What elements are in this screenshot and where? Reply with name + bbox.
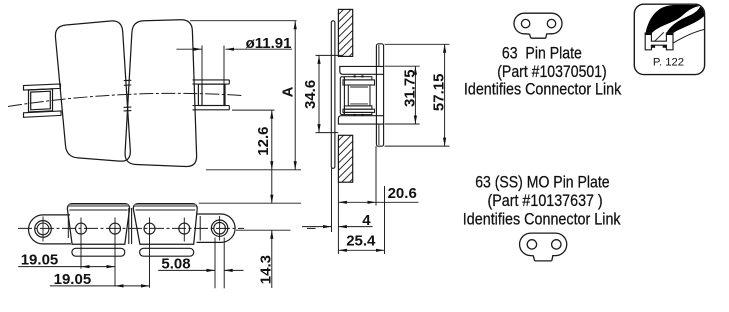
- body1 hole 1 crosshair+ext: [80, 218, 82, 269]
- dimension text 5.08: [161, 256, 190, 273]
- svg-text:Identifies Connector Link: Identifies Connector Link: [463, 211, 621, 229]
- svg-text:19.05: 19.05: [54, 271, 92, 288]
- cross-section top flange: [340, 66, 384, 74]
- body2 hole 4 crosshair: [183, 218, 185, 242]
- left link bushing box outer: [29, 89, 53, 112]
- right end inner circle: [214, 222, 226, 234]
- dimension 19.05b line and text underline: [50, 284, 150, 287]
- cross-section pin center block: [348, 85, 370, 106]
- dimension 14.3 line: [270, 170, 273, 288]
- dimension 34.6 line: [317, 55, 320, 132]
- side view centerline (dash-dot): [8, 93, 242, 106]
- cross-section pin bar top narrow: [344, 77, 372, 80]
- cross-section pin bar bottom narrow: [344, 106, 372, 109]
- left link top bar: [24, 84, 61, 90]
- dimension 20.6 extensions: [338, 146, 376, 205]
- left end crosshair: [42, 216, 44, 241]
- body1 hole 2 crosshair+ext: [114, 218, 116, 287]
- svg-text:Identifies Connector Link: Identifies Connector Link: [464, 81, 622, 99]
- dimension 57.15 line: [443, 44, 446, 146]
- svg-text:63 (SS) MO Pin Plate: 63 (SS) MO Pin Plate: [475, 173, 609, 191]
- bottom view centerline: [18, 227, 316, 229]
- svg-text:ø11.91: ø11.91: [246, 35, 292, 52]
- left plate end cut line: [67, 216, 69, 238]
- dimension dia11.91 extension lines: [202, 46, 224, 85]
- cross-section pin bar bottom wide: [343, 109, 375, 112]
- right link pin box inner: [202, 84, 224, 105]
- text Part 10370501: [497, 63, 607, 81]
- cross-section pin left cap: [340, 77, 344, 115]
- dimension text 20.6: [388, 185, 417, 202]
- dimension 25.4 line: [338, 249, 384, 252]
- dimension text 25.4: [346, 233, 376, 250]
- left end inner circle: [37, 223, 49, 235]
- side view plate 2 (link sideplate): [125, 20, 197, 167]
- svg-text:31.75: 31.75: [402, 69, 419, 107]
- link body 2 outline: [133, 204, 197, 245]
- svg-text:20.6: 20.6: [388, 185, 417, 202]
- top pin plate icon: [514, 13, 562, 38]
- P.122 chain curve graphic: [645, 5, 705, 43]
- body2 hole 3: [144, 223, 155, 234]
- dimension A top extension: [190, 20, 297, 22]
- dimension 31.75 line: [414, 66, 417, 124]
- svg-text:19.05: 19.05: [21, 251, 59, 268]
- dimension 20.6 line: [338, 201, 418, 204]
- text Identifies Connector Link 1: [464, 81, 622, 99]
- link body 1 top inner line: [69, 209, 127, 211]
- body1 hole 2: [110, 223, 121, 234]
- text 63 SS MO Pin Plate: [475, 173, 609, 191]
- svg-text:14.3: 14.3: [258, 255, 275, 284]
- text P. 122: [653, 57, 684, 69]
- cross-section hidden-line dots: [354, 75, 364, 116]
- svg-text:P. 122: P. 122: [653, 57, 684, 69]
- svg-text:(Part #10137637 ): (Part #10137637 ): [488, 192, 603, 210]
- left plate end (stadium): [29, 215, 71, 244]
- link body 2 bottom boat: [140, 248, 194, 256]
- cross-section bottom flange: [338, 116, 383, 124]
- dimension 12.6 line: [270, 110, 273, 170]
- cross-section thin side plate: [331, 21, 335, 169]
- right end crosshair: [219, 216, 221, 241]
- cross-section pin bar top wide: [343, 80, 375, 85]
- dimension 5.08 line: [158, 269, 243, 272]
- dimension 34.6 extensions: [316, 55, 343, 132]
- body2 hole 4: [179, 223, 190, 234]
- bottom pin plate icon: [520, 233, 567, 261]
- dimension 31.75 extensions: [385, 66, 420, 124]
- dimension text 34.6: [302, 80, 319, 109]
- svg-text:A: A: [279, 86, 296, 97]
- right link bottom bar: [193, 106, 230, 110]
- text Identifies Connector Link 2: [463, 211, 621, 229]
- svg-text:25.4: 25.4: [346, 233, 376, 250]
- svg-text:57.15: 57.15: [431, 74, 448, 112]
- link body 2 top shade: [135, 204, 196, 207]
- left link bushing box inner: [31, 91, 51, 110]
- right end outer circle: [211, 220, 227, 236]
- P.122 chain profile H: [645, 33, 673, 50]
- link body 1 top shade: [69, 204, 129, 207]
- dimension dia11.91 leader and arrows: [177, 48, 293, 51]
- svg-text:(Part #10370501): (Part #10370501): [497, 63, 607, 81]
- left end outer circle: [35, 221, 52, 238]
- gap link edges: [129, 208, 132, 244]
- link body 2 top inner line: [136, 209, 196, 211]
- cross-section top hatched block: [338, 9, 352, 56]
- middle link bar fragments: [124, 80, 132, 111]
- dimension text 57.15: [431, 74, 448, 112]
- P.122 catalog box frame: [634, 4, 704, 74]
- svg-text:63 Pin Plate: 63 Pin Plate: [502, 44, 582, 62]
- svg-text:4: 4: [362, 212, 371, 229]
- dimension 19.05a line and text underline: [18, 265, 115, 268]
- dimension 12.6 top extension: [232, 109, 275, 111]
- svg-text:34.6: 34.6: [302, 80, 319, 109]
- dimension 25.4 right extension: [384, 186, 386, 254]
- link body 1 outline: [67, 204, 129, 245]
- dimension text 31.75: [402, 69, 419, 107]
- body2 hole 3 crosshair+ext: [149, 218, 151, 288]
- dimension text 19.05a: [21, 251, 59, 268]
- dimension text 19.05b: [54, 271, 92, 288]
- dimension text 4: [362, 212, 371, 229]
- cross-section pin bar bottom narrow2: [344, 112, 372, 114]
- right plate end (stadium): [197, 214, 236, 242]
- dimension 57.15 extensions: [385, 44, 450, 146]
- dimension 14.3 extensions: [199, 203, 301, 230]
- right link pin box outer: [198, 84, 225, 105]
- link body 1 bottom boat: [72, 248, 125, 256]
- svg-text:12.6: 12.6: [255, 126, 272, 155]
- bottom extension line (plate bottom): [206, 169, 301, 171]
- dimension A line: [294, 21, 297, 170]
- dimension text 14.3: [258, 255, 275, 284]
- text 63 Pin Plate: [502, 44, 582, 62]
- body1 hole 1: [76, 223, 87, 234]
- dimension text A: [279, 86, 296, 97]
- cross-section bottom hatched block: [338, 135, 352, 182]
- dimension text 12.6: [255, 126, 272, 155]
- text Part 10137637: [488, 192, 603, 210]
- dimension 4 extensions: [332, 168, 339, 254]
- cross-section right plate (vertical): [376, 44, 383, 146]
- svg-text:5.08: 5.08: [161, 256, 190, 273]
- left link bottom bar: [24, 111, 62, 117]
- right link top bar: [193, 80, 230, 84]
- dimension 5.08 extensions: [215, 238, 224, 289]
- dimension text dia11.91: [246, 35, 292, 52]
- side view plate 1 (link sideplate): [55, 21, 130, 161]
- right plate end cut line: [199, 216, 201, 241]
- dimension 4 line: [302, 225, 373, 228]
